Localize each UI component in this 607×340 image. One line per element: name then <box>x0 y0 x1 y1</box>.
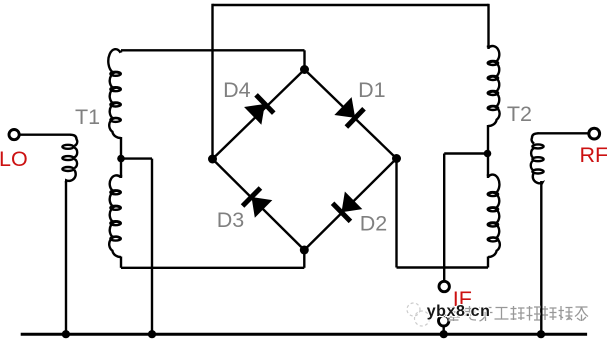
node diamond bottom <box>300 246 309 255</box>
node diamond right <box>392 154 401 163</box>
svg-text:D4: D4 <box>223 78 251 102</box>
wire left riser to diamond left node <box>211 4 213 159</box>
diode D4 <box>244 95 274 125</box>
node rail at LO primary <box>62 330 70 338</box>
wire diamond right node drop <box>395 159 397 268</box>
wire T1 secondary bottom exit <box>120 257 122 268</box>
wire T1 secondary middle <box>120 137 122 178</box>
wire T2 middle <box>487 125 489 178</box>
wire RF primary bottom drop <box>540 181 542 334</box>
svg-text:D2: D2 <box>360 211 387 235</box>
wire LO primary bottom drop <box>65 181 67 334</box>
node T2 center tap <box>484 150 492 158</box>
diode D2 <box>333 191 363 221</box>
diode D3 <box>243 188 273 218</box>
svg-text:D1: D1 <box>358 78 385 102</box>
watermark logo circles <box>407 303 430 326</box>
port IF terminal lower <box>439 316 449 326</box>
wire ground riser x=152 <box>151 159 153 335</box>
node diamond left <box>208 155 217 164</box>
transformer T2 secondary upper winding <box>488 46 500 127</box>
wire T2 top riser <box>487 4 489 49</box>
wire T2 secondary bottom exit <box>487 257 489 268</box>
wire RF to T2 primary <box>538 132 590 134</box>
node diamond top <box>300 65 309 74</box>
wire top rail <box>213 4 489 6</box>
wire IF lower stub to rail <box>443 326 445 335</box>
port LO terminal <box>9 130 19 140</box>
svg-text:ybx8.cn: ybx8.cn <box>427 303 491 320</box>
wire riser diamond bottom <box>303 250 305 268</box>
transformer T1 secondary lower winding <box>109 175 121 257</box>
transformer T1 secondary upper winding <box>108 49 121 138</box>
wire diamond edge left-top <box>213 70 305 160</box>
wire bottom link to T2 bottom <box>397 266 489 268</box>
wire T1 secondary top to diamond <box>121 49 305 51</box>
wire drop to diamond top node <box>303 50 305 69</box>
port RF terminal <box>589 128 600 139</box>
node rail at T1 tap riser <box>148 330 156 338</box>
svg-text:T1: T1 <box>75 105 100 129</box>
wire IF drop <box>443 154 445 282</box>
svg-text:D3: D3 <box>217 208 245 232</box>
wire LO to T1 primary <box>19 133 71 135</box>
wire diamond edge top-right <box>305 70 397 159</box>
node T1 center tap <box>117 155 125 163</box>
wire T2 center tap to IF drop <box>444 152 487 154</box>
watermark chinese knowledge-system text row <box>447 306 460 321</box>
node rail at RF primary <box>537 330 545 338</box>
node rail at IF return <box>440 330 448 338</box>
transformer T1 primary winding (LO side) <box>62 135 77 183</box>
svg-text:T2: T2 <box>507 102 532 126</box>
svg-text:RF: RF <box>580 143 607 167</box>
wire bottom link to diamond bottom <box>121 267 304 269</box>
transformer T2 secondary lower winding <box>488 174 500 257</box>
diode D1 <box>334 97 364 127</box>
wire diamond edge bottom-left <box>213 159 305 250</box>
wire ground rail <box>21 333 587 336</box>
wire T1 center tap stub <box>121 157 152 159</box>
port IF terminal upper <box>439 281 449 291</box>
transformer T2 primary winding (RF side) <box>531 133 544 184</box>
wire diamond edge right-bottom <box>304 159 396 251</box>
svg-text:LO: LO <box>0 147 28 171</box>
